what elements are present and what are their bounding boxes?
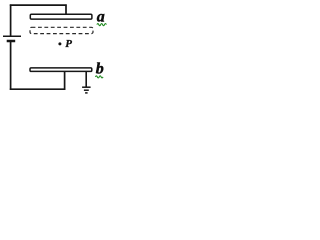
node P marker dot [58,42,61,45]
battery E: short thick negative plate [7,40,16,43]
wire: left vertical from top corner down to battery positive plate [10,4,12,35]
grammar squiggle under a [97,24,107,26]
wire: left vertical from battery negative plate down to bottom corner [10,42,12,91]
svg-text:a: a [97,8,105,25]
svg-text:b: b [96,60,104,77]
wire: vertical lead down to top capacitor plate [65,4,67,14]
capacitor bottom plate (plate b) [30,68,92,72]
ground: bar 2 [84,89,89,91]
svg-text:P: P [65,38,72,50]
wire: bottom horizontal from left corner to bottom plate riser [10,88,66,90]
wire: riser from bottom wire up to bottom capacitor plate [64,71,66,90]
ground: bar 3 [85,92,88,94]
ground: bar 1 [82,86,91,88]
wire: drop from bottom plate to ground [85,72,87,87]
wire: top horizontal from left corner to top plate lead [10,4,67,6]
capacitor top plate (plate a) [30,14,92,19]
dielectric slab (dashed rectangle) [30,27,93,33]
battery E: long thin positive plate [3,35,21,37]
grammar squiggle under b [95,76,103,78]
